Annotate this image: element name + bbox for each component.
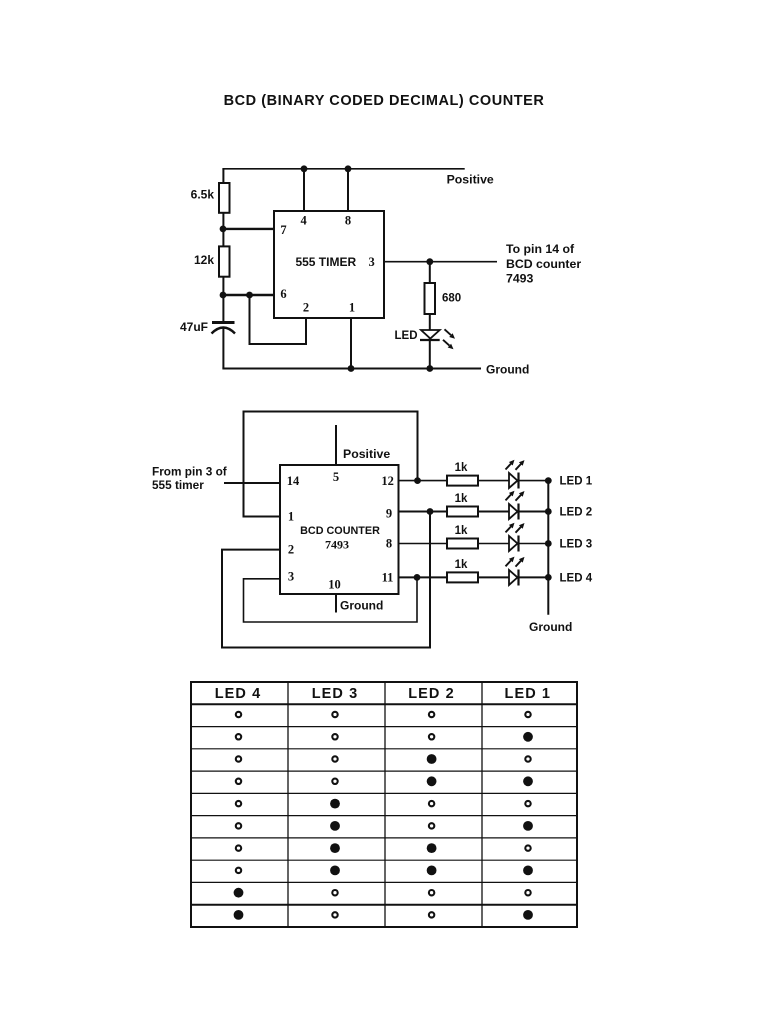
svg-text:LED 1: LED 1 [505,686,552,702]
LED D1 cathode bar [420,339,440,341]
table dot row4 LED1 off [525,801,530,806]
junction pin3/LED branch [426,258,433,265]
svg-text:4: 4 [300,214,307,228]
junction LED/ground [426,365,433,372]
wire pin10 ground stub [335,594,337,613]
junction node B2 (pin2 feedback tap) [246,292,253,299]
junction divider node A [220,226,227,233]
svg-text:7: 7 [280,223,286,237]
svg-text:LED 2: LED 2 [560,507,593,519]
svg-text:680: 680 [442,293,461,305]
table dot row2 LED2 on [427,754,437,764]
table dot row8 LED1 off [525,890,530,895]
wire row LED2 [399,511,549,513]
svg-text:LED 3: LED 3 [560,539,593,551]
svg-text:9: 9 [386,507,392,521]
LED D1 light arrow 1 [445,329,456,339]
wire pin9 to pin2 feedback loop [222,512,430,648]
junction pin4/rail [301,165,308,172]
svg-text:LED 4: LED 4 [215,686,262,702]
svg-text:3: 3 [288,570,294,584]
svg-text:6.5k: 6.5k [191,188,215,202]
wire pin3 output [384,261,497,263]
svg-text:Positive: Positive [447,172,494,186]
svg-text:LED 1: LED 1 [560,476,593,488]
table dot row5 LED2 off [429,823,434,828]
resistor 6.5k body [219,183,230,213]
svg-text:BCD (BINARY CODED DECIMAL) COU: BCD (BINARY CODED DECIMAL) COUNTER [224,93,545,109]
table dot row0 LED4 off [236,712,241,717]
svg-text:5: 5 [333,470,339,484]
junction node B on left rail [220,292,227,299]
svg-text:To pin 14 of: To pin 14 of [506,242,575,256]
wire ground rail (555) [222,368,481,370]
table dot row3 LED3 off [332,779,337,784]
wire pin6 to node B [223,294,274,296]
svg-text:12k: 12k [194,253,214,267]
table dot row8 LED2 off [429,890,434,895]
LED1 light arrows [506,460,515,470]
svg-text:2: 2 [288,543,294,557]
LED2 light arrows [506,491,515,501]
svg-text:BCD COUNTER: BCD COUNTER [300,525,380,537]
table dot row7 LED3 on [330,866,340,876]
resistor 12k body [219,246,230,276]
wire ground rail (7493 LEDs) [547,481,549,615]
table dot row3 LED1 on [523,776,533,786]
table dot row4 LED2 off [429,801,434,806]
LED3 light arrows [506,523,515,533]
LED D1 light arrow 2 [443,340,454,350]
op-amp/timer U1 555 box [274,211,384,318]
truth table grid [191,682,577,927]
table dot row1 LED3 off [332,734,337,739]
table dot row8 LED3 off [332,890,337,895]
table dot row7 LED4 off [236,868,241,873]
wire pin14 input [224,482,280,484]
table dot row2 LED3 off [332,756,337,761]
table dot row5 LED4 off [236,823,241,828]
svg-text:Positive: Positive [343,447,390,461]
table dot row2 LED4 off [236,756,241,761]
table dot row6 LED4 off [236,845,241,850]
svg-text:BCD counter: BCD counter [506,257,581,271]
capacitor 47uF top plate [212,321,235,324]
svg-text:Ground: Ground [486,363,529,377]
svg-text:1: 1 [349,301,355,315]
table dot row9 LED3 off [332,912,337,917]
svg-text:Ground: Ground [340,599,383,613]
svg-text:LED 2: LED 2 [408,686,455,702]
wire row LED1 [399,480,549,482]
table dot row0 LED2 off [429,712,434,717]
junction rail LED2 [545,508,552,515]
svg-text:555 timer: 555 timer [152,478,204,492]
svg-text:From pin 3 of: From pin 3 of [152,465,227,479]
wire pin5 positive stub [335,425,337,465]
wire pin7 to divider node [223,228,274,230]
table dot row9 LED4 on [234,910,244,920]
svg-text:1k: 1k [455,493,468,505]
wire top feedback loop pin12 to pin1 [244,412,418,517]
table dot row8 LED4 on [234,888,244,898]
table dot row1 LED4 off [236,734,241,739]
LED4 light arrows [506,557,515,567]
svg-text:1k: 1k [455,559,468,571]
wire positive rail (555) [222,168,464,170]
LED1 cathode bar [517,473,519,489]
svg-text:8: 8 [386,537,392,551]
junction rail LED4 [545,574,552,581]
LED4 triangle [509,570,518,585]
capacitor 47uF curved plate [212,328,236,334]
IC U2 BCD counter 7493 box [280,465,399,594]
table dot row7 LED2 on [427,866,437,876]
table dot row7 LED1 on [523,866,533,876]
wire pin2 feedback loop [250,295,307,344]
svg-text:7493: 7493 [506,271,534,285]
LED1 triangle [509,473,518,488]
table dot row0 LED3 off [332,712,337,717]
resistor R1 1k body [447,476,478,486]
table dot row6 LED3 on [330,843,340,853]
junction pin8/rail [345,165,352,172]
resistor 680 body [425,283,436,314]
svg-text:7493: 7493 [325,538,349,552]
wire LED branch vertical [429,262,431,369]
resistor R4 1k body [447,572,478,582]
svg-text:LED 3: LED 3 [312,686,359,702]
node positive-rail left corner / left supply vertical wire [222,169,224,369]
LED4 cathode bar [517,570,519,586]
table dot row4 LED4 off [236,801,241,806]
svg-text:2: 2 [303,301,309,315]
LED3 triangle [509,536,518,551]
svg-text:1k: 1k [455,462,468,474]
junction pin12/top loop [414,477,421,484]
svg-text:47uF: 47uF [180,320,208,334]
svg-text:1: 1 [288,510,294,524]
svg-text:11: 11 [382,571,394,585]
svg-text:12: 12 [381,474,394,488]
svg-text:LED: LED [395,330,418,342]
table dot row9 LED1 on [523,910,533,920]
table dot row5 LED3 on [330,821,340,831]
LED2 cathode bar [517,504,519,520]
LED D1 triangle [421,330,440,339]
table dot row4 LED3 on [330,799,340,809]
table dot row1 LED2 off [429,734,434,739]
table dot row5 LED1 on [523,821,533,831]
svg-text:555 TIMER: 555 TIMER [295,255,356,269]
LED2 triangle [509,504,518,519]
LED3 cathode bar [517,536,519,552]
table dot row1 LED1 on [523,732,533,742]
wire pin8 to positive rail [347,169,349,211]
table dot row0 LED1 off [525,712,530,717]
junction rail LED3 [545,540,552,547]
wire pin1 to ground [350,318,352,369]
svg-text:8: 8 [345,214,351,228]
svg-text:Ground: Ground [529,620,572,634]
svg-text:10: 10 [328,578,341,592]
table dot row6 LED1 off [525,845,530,850]
resistor R3 1k body [447,539,478,549]
wire pin11 to pin3 feedback loop [244,577,418,622]
svg-text:1k: 1k [455,525,468,537]
wire row LED4 [399,576,549,578]
junction pin9/feedback [427,508,434,515]
table dot row2 LED1 off [525,756,530,761]
svg-text:6: 6 [280,287,286,301]
junction rail LED1 [545,477,552,484]
resistor R2 1k body [447,507,478,517]
table dot row9 LED2 off [429,912,434,917]
junction pin11/feedback [414,574,421,581]
table dot row3 LED4 off [236,779,241,784]
svg-text:14: 14 [287,474,300,488]
svg-text:3: 3 [368,255,374,269]
svg-text:LED 4: LED 4 [560,572,593,584]
wire row LED3 [399,543,549,545]
table dot row6 LED2 on [427,843,437,853]
wire pin4 to positive rail [303,169,305,211]
junction pin1/ground [348,365,355,372]
table dot row3 LED2 on [427,776,437,786]
